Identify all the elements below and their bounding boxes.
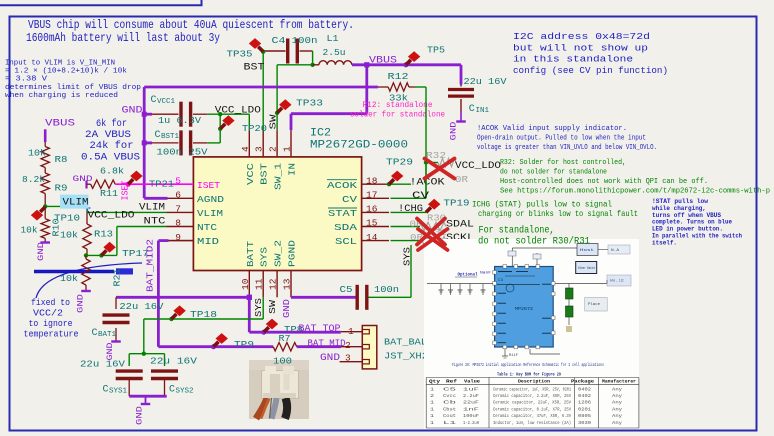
svg-text:determines limit of VBUS drop: determines limit of VBUS drop: [5, 84, 141, 92]
svg-text:10k: 10k: [60, 230, 78, 241]
svg-text:MID: MID: [197, 236, 219, 247]
junction TP35: [261, 50, 265, 54]
IC2 left pin stubs 6-9: [167, 197, 194, 199]
svg-text:C: C: [155, 130, 161, 141]
svg-text:ICHG (STAT) pulls low to signa: ICHG (STAT) pulls low to signal: [472, 200, 612, 210]
svg-text:100n 25V: 100n 25V: [157, 147, 208, 158]
testpoint TP10: [40, 207, 45, 212]
svg-text:N.A: N.A: [611, 249, 620, 253]
svg-text:11: 11: [254, 278, 265, 290]
connector BAT_BAL1 body: [362, 326, 377, 369]
wire CV to VCC_LDO: [391, 197, 427, 199]
svg-text:MP2672GD-0000: MP2672GD-0000: [310, 140, 408, 152]
svg-text:TP9: TP9: [234, 339, 254, 350]
ground below CIN1: [460, 111, 462, 122]
inductor L1: [313, 64, 319, 66]
svg-text:NTC: NTC: [197, 222, 217, 233]
svg-text:C5: C5: [340, 284, 353, 295]
svg-text:L1: L1: [327, 33, 339, 44]
svg-text:0805: 0805: [578, 414, 591, 419]
wire SYS label right: [410, 245, 412, 297]
window remnant line top-left: [0, 0, 202, 5]
capacitor CIN1: [460, 85, 462, 87]
svg-text:Ceramic capacitor, 1uF, X5R, 2: Ceramic capacitor, 1uF, X5R, 25V, 0201: [493, 387, 571, 392]
wire BST vertical: [262, 52, 264, 131]
svg-text:SDA: SDA: [334, 222, 357, 233]
svg-text:Any: Any: [612, 421, 622, 426]
capacitor C5: [356, 285, 359, 310]
svg-text:1nF: 1nF: [463, 407, 480, 412]
svg-text:2: 2: [345, 340, 351, 351]
svg-text:IC2: IC2: [310, 128, 331, 140]
svg-text:BST: BST: [259, 163, 270, 185]
svg-text:temperature: temperature: [24, 330, 79, 340]
svg-text:Any: Any: [612, 414, 622, 419]
svg-text:1: 1: [430, 387, 435, 392]
IC2 bottom pin stubs 10-13: [248, 271, 250, 298]
svg-text:7: 7: [175, 204, 181, 215]
svg-text:Ceramic capacitor, 0.1uF, X7R,: Ceramic capacitor, 0.1uF, X7R, 25V: [493, 407, 571, 412]
svg-text:1: 1: [430, 414, 435, 419]
svg-text:L1: L1: [443, 421, 457, 426]
svg-text:VCC: VCC: [245, 163, 256, 185]
svg-text:3: 3: [345, 353, 351, 364]
resistor R9: [41, 173, 49, 194]
svg-text:10k: 10k: [28, 148, 46, 159]
svg-text:= 3.38 V: = 3.38 V: [5, 76, 47, 84]
IC2 right pin stubs 18-14: [362, 183, 389, 185]
svg-text:TP29: TP29: [386, 157, 413, 168]
testpoint TP9: [214, 342, 219, 347]
figure below-IC parts: [504, 349, 506, 356]
svg-text:10k: 10k: [60, 273, 78, 284]
svg-text:Figure 29: MP2672 initial appl: Figure 29: MP2672 initial application Re…: [452, 362, 604, 368]
testpoint TP5: [403, 62, 408, 67]
wire purple rail y87: [144, 86, 378, 89]
svg-text:TP20: TP20: [242, 123, 267, 134]
svg-text:GND: GND: [281, 299, 292, 318]
svg-text:R7: R7: [279, 333, 291, 344]
wire SCL: [391, 240, 421, 242]
wire VBUS thick: [352, 63, 461, 66]
svg-text:3: 3: [254, 146, 265, 152]
wire BAT_TOP purple from CBAT1 to pin10: [116, 296, 249, 299]
svg-text:BAT1: BAT1: [98, 331, 117, 339]
svg-text:SW: SW: [268, 114, 279, 129]
svg-text:1: 1: [430, 401, 435, 406]
svg-text:0402: 0402: [578, 394, 591, 399]
svg-text:in this standalone: in this standalone: [513, 54, 633, 65]
svg-text:Cvcc: Cvcc: [443, 394, 456, 399]
cross out R30: [417, 219, 445, 245]
svg-text:18: 18: [366, 175, 378, 186]
resistor R21: [85, 255, 87, 259]
svg-text:SYS: SYS: [253, 298, 264, 317]
svg-text:do not solder R30/R31: do not solder R30/R31: [478, 236, 590, 248]
svg-text:22u 16V: 22u 16V: [80, 359, 125, 370]
svg-text:6: 6: [175, 190, 181, 201]
testpoint TP19: [426, 207, 431, 212]
IC2 pin 5 ISET stub (highlighted): [167, 183, 194, 185]
resistor R7: [273, 343, 297, 351]
svg-text:2: 2: [268, 146, 279, 152]
svg-text:IN: IN: [287, 163, 298, 176]
svg-text:TP5: TP5: [427, 45, 445, 56]
svg-text:VCC_LDO: VCC_LDO: [455, 161, 501, 172]
svg-text:22uF: 22uF: [463, 401, 480, 406]
resistor R30 DNP gray: [422, 222, 446, 230]
svg-text:12: 12: [268, 278, 279, 290]
svg-text:2A VBUS: 2A VBUS: [85, 130, 131, 141]
svg-text:GND: GND: [36, 242, 46, 261]
svg-text:Host-controlled does not work: Host-controlled does not work with QPI c…: [500, 178, 708, 186]
svg-text:Qty: Qty: [429, 380, 441, 385]
svg-text:Value: Value: [464, 380, 480, 385]
svg-text:ISET: ISET: [121, 180, 131, 201]
svg-text:2.5u: 2.5u: [323, 47, 346, 58]
svg-text:but will not show up: but will not show up: [513, 42, 648, 53]
wire NTC: [117, 226, 167, 228]
embedded datasheet figure background: [424, 239, 639, 429]
svg-text:1u 6.3V: 1u 6.3V: [158, 115, 201, 126]
svg-text:10: 10: [240, 278, 251, 290]
svg-text:JST_XH2: JST_XH2: [384, 350, 428, 361]
svg-text:6k for: 6k for: [96, 118, 127, 130]
svg-text:R32: Solder for host controlle: R32: Solder for host controlled,: [500, 159, 626, 167]
svg-text:AGND: AGND: [197, 194, 224, 205]
svg-text:17: 17: [366, 190, 377, 201]
wire SYS net green pin11: [262, 297, 264, 319]
capacitor CSYS1: [116, 369, 143, 372]
svg-text:0402: 0402: [578, 387, 591, 392]
svg-text:NanF: NanF: [480, 272, 492, 276]
testpoint TP21: [128, 179, 133, 184]
capacitor Cvcc1: [144, 113, 152, 116]
svg-text:SW_2: SW_2: [273, 240, 284, 267]
svg-text:C: C: [469, 104, 475, 115]
svg-text:Host: Host: [580, 249, 594, 253]
wire VBUS to CIN1: [460, 65, 463, 85]
svg-text:do not solder for standalone: do not solder for standalone: [500, 169, 607, 177]
svg-text:TP18: TP18: [190, 309, 217, 320]
svg-text:VBUS: VBUS: [45, 119, 75, 130]
testpoint TP29: [389, 179, 394, 184]
svg-text:2.2uF: 2.2uF: [463, 394, 479, 399]
svg-text:when charging is reduced: when charging is reduced: [5, 92, 118, 100]
svg-text:R21: R21: [113, 269, 123, 287]
capacitor CBAT1: [115, 297, 117, 309]
svg-text:SCL: SCL: [335, 236, 357, 247]
svg-text:5: 5: [175, 175, 181, 186]
svg-text:6.8k: 6.8k: [100, 166, 124, 177]
figure left small parts: [440, 284, 442, 296]
svg-text:GND: GND: [122, 106, 143, 117]
svg-text:I2C address 0x48=72d: I2C address 0x48=72d: [513, 31, 650, 42]
svg-text:TP21: TP21: [149, 178, 174, 189]
svg-text:Table 1: Key BOM for Figure 29: Table 1: Key BOM for Figure 29: [497, 372, 561, 378]
wire SDA: [391, 226, 421, 228]
svg-text:BATT: BATT: [245, 241, 256, 267]
svg-text:GND: GND: [135, 406, 145, 425]
svg-text:MP2672: MP2672: [515, 306, 533, 312]
svg-text:BAT MID: BAT MID: [308, 339, 346, 350]
svg-text:15: 15: [366, 218, 378, 229]
svg-text:ACOK: ACOK: [327, 180, 357, 191]
svg-text:Open-drain output. Pulled to l: Open-drain output. Pulled to low when th…: [477, 135, 646, 143]
svg-text:Other Batte: Other Batte: [578, 266, 595, 271]
svg-text:SDAL: SDAL: [446, 219, 474, 230]
svg-text:TP33: TP33: [296, 98, 323, 109]
svg-text:TP35: TP35: [227, 49, 253, 60]
svg-text:IN1: IN1: [476, 107, 490, 115]
svg-text:itself.: itself.: [652, 239, 677, 246]
label VLIM highlighted: [60, 195, 89, 209]
svg-text:SYS: SYS: [259, 247, 270, 267]
svg-text:R11F: R11F: [509, 354, 518, 358]
svg-text:Any: Any: [612, 407, 622, 412]
svg-text:STAT: STAT: [328, 208, 357, 219]
svg-text:3030: 3030: [578, 421, 591, 426]
IC2 top pin stubs 4-1: [248, 130, 250, 157]
svg-text:solder for standalone: solder for standalone: [350, 109, 445, 119]
svg-text:C: C: [92, 328, 98, 339]
wire pin9 MID to BAT_MID2: [167, 240, 193, 242]
svg-text:VLIM: VLIM: [139, 202, 165, 213]
svg-text:Any: Any: [612, 394, 622, 399]
svg-text:voltage is greater than VIN_UV: voltage is greater than VIN_UVLO and bel…: [477, 144, 657, 152]
capacitor C4: [264, 50, 286, 52]
svg-text:Ceramic capacitor, 2.2uF, X5R,: Ceramic capacitor, 2.2uF, X5R, 25V: [493, 394, 571, 399]
svg-text:PGND: PGND: [287, 240, 298, 267]
wire ACOK: [387, 182, 391, 186]
resistor R8: [44, 142, 46, 147]
svg-text:Ans..lit: Ans..lit: [610, 279, 624, 284]
svg-text:C3: C3: [498, 279, 503, 283]
svg-text:C5: C5: [443, 387, 457, 392]
svg-text:1206: 1206: [578, 401, 591, 406]
svg-text:SYS1: SYS1: [109, 388, 128, 396]
svg-text:Ceramic capacitor, 47uF, X5R,: Ceramic capacitor, 47uF, X5R, 6.3V: [493, 414, 571, 419]
svg-text:1uF: 1uF: [463, 387, 480, 392]
svg-text:SW_1: SW_1: [273, 163, 284, 190]
svg-text:VCC_LDO: VCC_LDO: [88, 210, 135, 221]
junction TP8: [261, 330, 266, 335]
svg-text:GND: GND: [320, 353, 340, 364]
wire VCC_LDO node: [207, 113, 249, 115]
connector pin lines: [341, 331, 363, 333]
svg-text:1-2.2uH: 1-2.2uH: [463, 421, 479, 426]
svg-text:Input to VLIM is V_IN_MIN: Input to VLIM is V_IN_MIN: [5, 60, 115, 68]
svg-text:Manufacturer: Manufacturer: [602, 380, 636, 385]
svg-text:Cbst: Cbst: [443, 407, 456, 412]
svg-text:Ceramic capacitor, 22uF, X5R,: Ceramic capacitor, 22uF, X5R, 25V: [493, 401, 571, 406]
node VLIM junction: [43, 204, 47, 208]
wire GND pin13 to C5: [291, 296, 356, 299]
testpoint TP17: [101, 250, 106, 255]
svg-text:BST1: BST1: [161, 133, 180, 141]
svg-text:24k for: 24k for: [90, 140, 134, 152]
ground below R10: [44, 238, 46, 242]
svg-text:1600mAh battery will last abou: 1600mAh battery will last about 3y: [26, 31, 220, 45]
svg-text:GND: GND: [73, 174, 93, 184]
svg-text:C: C: [151, 95, 157, 106]
svg-text:22u 16V: 22u 16V: [119, 301, 163, 312]
capacitor CSYS2: [151, 369, 178, 372]
svg-text:Any: Any: [612, 387, 622, 392]
svg-text:22u 16V: 22u 16V: [150, 356, 197, 367]
svg-text:to ignore: to ignore: [29, 319, 73, 329]
svg-text:fixed to: fixed to: [31, 298, 70, 308]
figure right boxes: [577, 244, 598, 256]
figure main wire: [427, 283, 607, 285]
svg-text:100uF: 100uF: [463, 414, 479, 419]
svg-text:1: 1: [430, 407, 435, 412]
wire ISET pink: [115, 183, 166, 185]
svg-text:10k: 10k: [21, 225, 38, 236]
svg-text:Place: Place: [588, 302, 600, 307]
wire VLIM to pin7: [45, 205, 87, 207]
svg-text:16: 16: [366, 204, 378, 215]
resistor R11: [91, 180, 116, 188]
resistor R31 DNP gray: [422, 236, 446, 244]
svg-text:C: C: [169, 385, 175, 396]
svg-text:0201: 0201: [578, 407, 591, 412]
figure top wires: [511, 248, 513, 266]
figure BOM table: [426, 371, 639, 428]
svg-text:22u 16V: 22u 16V: [464, 76, 507, 87]
cross out R31: [418, 229, 448, 250]
svg-text:VLIM: VLIM: [197, 208, 223, 219]
svg-text:R8: R8: [55, 154, 68, 165]
svg-text:BAT_MID2: BAT_MID2: [145, 239, 156, 292]
svg-text:1: 1: [282, 146, 293, 152]
svg-text:ISET: ISET: [197, 180, 220, 191]
figure IC block: [495, 267, 554, 348]
svg-text:Ref: Ref: [446, 380, 458, 385]
testpoint TP20: [220, 124, 225, 129]
resistor R10: [44, 206, 46, 218]
svg-text:SYS: SYS: [402, 247, 413, 266]
wire R7 to connector pin2: [297, 345, 341, 348]
svg-text:VLIM: VLIM: [63, 198, 89, 209]
svg-text:!ACOK Valid input supply indic: !ACOK Valid input supply indicator.: [477, 125, 627, 133]
svg-text:4: 4: [240, 146, 251, 152]
ground below CBAT1: [111, 340, 121, 342]
svg-text:GND: GND: [76, 294, 86, 313]
wire BAT_MID2 row to R7: [158, 345, 273, 348]
svg-text:CV: CV: [342, 194, 357, 205]
svg-text:SYS2: SYS2: [176, 388, 194, 396]
svg-text:8: 8: [175, 218, 181, 229]
svg-text:Inductor, 1uH, low resistance: Inductor, 1uH, low resistance (2A): [493, 421, 571, 426]
svg-text:TP19: TP19: [444, 198, 470, 209]
wire STAT / !CHG: [391, 211, 427, 213]
op-amp U IC2 MP2672GD body: [193, 157, 361, 271]
svg-text:Description: Description: [518, 380, 550, 385]
svg-text:BST: BST: [244, 62, 265, 73]
resistor R32 DNP gray: [438, 158, 456, 166]
svg-text:100n: 100n: [374, 284, 399, 295]
svg-text:R12: R12: [388, 71, 409, 82]
svg-text:VCC_LDO: VCC_LDO: [215, 106, 261, 117]
svg-text:SW: SW: [267, 300, 278, 314]
svg-text:= 1.2 × (10+8.2+10)k / 10k: = 1.2 × (10+8.2+10)k / 10k: [5, 68, 127, 76]
svg-text:R12: standalone: R12: standalone: [363, 100, 433, 110]
svg-text:Cout: Cout: [443, 414, 456, 419]
svg-text:config (see CV pin function): config (see CV pin function): [513, 65, 668, 76]
resistor R12: [378, 86, 388, 88]
svg-text:VCC1: VCC1: [157, 98, 176, 106]
svg-text:14: 14: [366, 232, 378, 243]
svg-text:100n: 100n: [292, 35, 318, 46]
svg-text:Cb: Cb: [443, 401, 457, 406]
photo of JST connector: [249, 360, 309, 419]
svg-text:CV: CV: [412, 191, 429, 202]
svg-text:charging or blinks low to sign: charging or blinks low to signal fault: [478, 209, 638, 219]
svg-text:1: 1: [430, 421, 435, 426]
wire IN pin purple: [291, 112, 367, 115]
thermistor placeholder navy bar: [34, 270, 114, 274]
svg-text:Any: Any: [612, 401, 622, 406]
testpoint TP18: [171, 314, 176, 319]
ground below CSYS caps: [129, 395, 167, 398]
annotation arc to NTC node: [36, 263, 142, 298]
svg-text:R13: R13: [94, 229, 113, 240]
capacitor CBST1: [144, 141, 152, 144]
svg-text:100: 100: [273, 356, 292, 367]
svg-text:R9: R9: [55, 183, 68, 194]
resistor R13: [86, 212, 88, 224]
wire VBUS branch down to R12 rail: [365, 65, 368, 114]
svg-text:Optional: Optional: [458, 272, 478, 278]
svg-text:0R: 0R: [455, 174, 468, 185]
svg-text:VBUS: VBUS: [369, 55, 397, 66]
svg-text:1: 1: [348, 326, 354, 337]
svg-text:R11: R11: [100, 188, 118, 199]
svg-text:2: 2: [430, 394, 435, 399]
svg-text:0.5A VBUS: 0.5A VBUS: [81, 153, 140, 164]
wire SW node: [312, 51, 314, 65]
wire AGND purple vertical rail: [143, 87, 146, 198]
wire R12 to CV/VCC_LDO: [415, 86, 426, 88]
wire CSYS rail: [129, 353, 164, 355]
svg-text:8.2k: 8.2k: [22, 174, 45, 185]
svg-text:C4: C4: [272, 35, 286, 46]
figure right batteries: [568, 284, 570, 289]
svg-text:See https://forum.monolithicpo: See https://forum.monolithicpower.com/t/…: [500, 188, 770, 196]
svg-text:C: C: [103, 385, 109, 396]
svg-text:13: 13: [282, 278, 293, 290]
svg-text:!CHG: !CHG: [398, 204, 423, 215]
ground below R21: [81, 290, 91, 292]
svg-text:GND: GND: [449, 122, 459, 141]
junction TP33: [275, 111, 279, 115]
svg-text:BAT TOP: BAT TOP: [299, 324, 341, 335]
cross out R32: [425, 159, 455, 179]
svg-text:VCC/2: VCC/2: [33, 309, 63, 319]
